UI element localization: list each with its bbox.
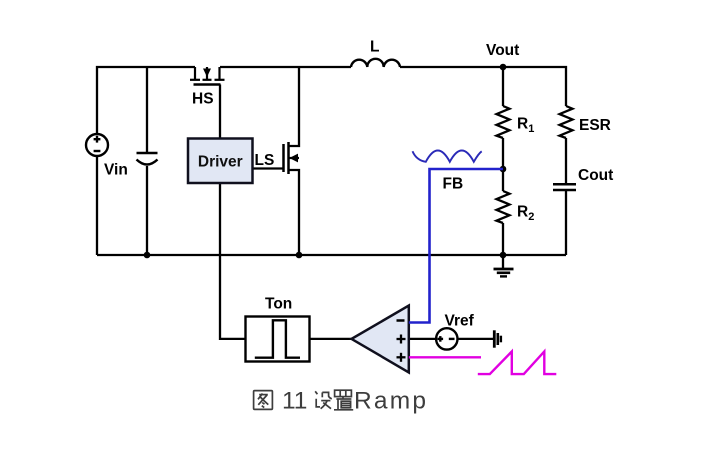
- svg-text:HS: HS: [192, 91, 214, 108]
- svg-text:L: L: [370, 39, 379, 56]
- svg-text:Ramp: Ramp: [354, 388, 428, 415]
- svg-text:Ton: Ton: [265, 296, 292, 313]
- resistor R1: [497, 106, 510, 138]
- caption glyph SHE (set): [315, 391, 317, 394]
- svg-text:FB: FB: [443, 176, 464, 193]
- node ground junction: [500, 252, 507, 259]
- wire R1 bottom to FB node: [502, 138, 504, 169]
- waveform FB ripple (blue squiggle): [413, 151, 482, 162]
- wire ESR to Cout: [565, 138, 567, 184]
- wire top rail left (Vin to HS): [97, 67, 195, 134]
- svg-text:Vout: Vout: [486, 42, 519, 59]
- node Vout: [500, 64, 507, 71]
- wire LS source: [289, 170, 300, 255]
- wire top rail right (L to Vout corner): [400, 67, 566, 106]
- one-shot Ton: [246, 317, 310, 362]
- comparator plus input mark (middle): [397, 335, 406, 344]
- ground GND2 (rotated right): [494, 330, 501, 347]
- wire R1 top (Vout to R1): [502, 67, 504, 106]
- wire bottom rail: [97, 254, 566, 256]
- wire Ton to comparator: [310, 338, 352, 340]
- wire Vref to ground: [458, 338, 494, 340]
- comparator minus input mark: [397, 319, 405, 322]
- caption glyph TU (figure): [254, 391, 273, 410]
- caption: 图 11 设置Ramp: [254, 391, 273, 410]
- wire LS drain: [289, 67, 300, 146]
- inductor L: [351, 59, 400, 67]
- voltage source Vin: [86, 134, 108, 156]
- capacitor Cin: [137, 153, 158, 165]
- transistor LS: [284, 142, 300, 174]
- svg-text:LS: LS: [255, 152, 275, 169]
- capacitor Cout: [553, 184, 576, 190]
- node FB: [500, 166, 507, 173]
- wire comparator plus2 (magenta): [409, 356, 481, 358]
- wire R2 bottom: [502, 223, 504, 255]
- svg-text:Cout: Cout: [578, 167, 613, 184]
- node LS source junction: [296, 252, 303, 259]
- wire Vin bottom: [96, 156, 98, 255]
- caption glyph ZHI (place): [335, 390, 352, 396]
- transistor HS: [190, 67, 225, 85]
- waveform ramp (magenta sawtooth): [478, 352, 557, 375]
- wire comparator plus to Vref: [409, 338, 437, 340]
- wire FB to R2: [502, 169, 504, 191]
- svg-text:Driver: Driver: [198, 154, 243, 171]
- wire Cin top: [146, 67, 148, 152]
- comparator U2: [352, 306, 409, 373]
- svg-text:11: 11: [282, 388, 307, 415]
- wire HS gate to Driver: [219, 85, 221, 140]
- svg-text:Vin: Vin: [104, 162, 128, 179]
- node Cin junction: [144, 252, 151, 259]
- comparator plus input mark (bottom): [397, 353, 406, 362]
- voltage source Vref: [436, 328, 457, 349]
- resistor R2: [497, 191, 510, 223]
- svg-text:ESR: ESR: [579, 117, 611, 134]
- Driver box U1: [188, 139, 253, 184]
- ground GND1: [494, 255, 514, 276]
- svg-text:Vref: Vref: [445, 313, 475, 330]
- wire FB to comparator minus (blue): [409, 169, 503, 323]
- wire Driver to Ton: [220, 183, 246, 339]
- resistor ESR: [560, 106, 573, 138]
- wire Driver to LS gate: [253, 167, 284, 169]
- wire Cin bottom: [146, 166, 148, 255]
- wire Cout bottom: [565, 190, 567, 255]
- wire top rail mid (HS to L): [220, 66, 351, 68]
- pulse symbol inside Ton: [255, 320, 300, 357]
